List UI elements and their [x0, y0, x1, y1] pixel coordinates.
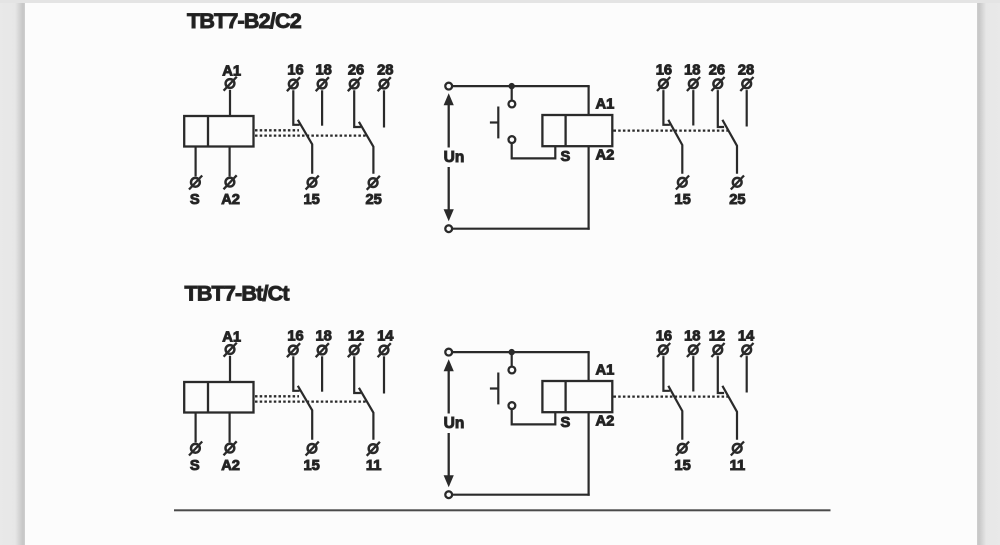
wire right contact 12 with hook — [718, 356, 724, 393]
wire bottom supply rail — [452, 228, 590, 230]
Un arrow down — [444, 167, 454, 221]
wire A2 from coil — [229, 147, 231, 177]
supply terminal bottom (open circle) — [445, 491, 452, 498]
svg-text:15: 15 — [674, 458, 690, 474]
wire contact 18 — [321, 356, 323, 391]
terminal 25 (right contacts) — [731, 176, 744, 190]
wire A1 to coil — [229, 356, 231, 382]
svg-text:S: S — [190, 192, 200, 208]
svg-text:A1: A1 — [222, 64, 241, 80]
terminal 14 (left contacts) — [378, 343, 391, 357]
svg-text:14: 14 — [738, 329, 755, 345]
changeover blade contact 15 (left) — [298, 120, 312, 174]
wire contact 16 with hook — [293, 90, 299, 125]
wire right contact 18 — [692, 90, 694, 125]
push button actuator — [490, 107, 498, 139]
dotted linkage upper (coil to contact 1) — [255, 129, 299, 131]
terminal A1 (left diagram) — [224, 77, 237, 91]
wire contact 16 with hook — [293, 356, 299, 391]
dotted linkage (coil to right contacts) — [614, 395, 729, 397]
svg-text:Un: Un — [444, 415, 465, 432]
wire junction to button — [511, 86, 513, 100]
svg-text:18: 18 — [684, 63, 700, 79]
wire button to S terminal — [512, 409, 556, 425]
relay coil box (right diagram) — [542, 115, 612, 146]
svg-text:26: 26 — [348, 63, 364, 79]
wire junction to button — [511, 352, 513, 366]
svg-text:28: 28 — [377, 63, 393, 79]
supply terminal top (open circle) — [445, 349, 452, 356]
Un arrow up — [444, 359, 454, 413]
terminal 12 (left contacts) — [348, 343, 361, 357]
wire coil A2 to bottom rail — [587, 146, 589, 230]
changeover blade contact 15 (left) — [298, 386, 312, 440]
terminal 11 (right contacts) — [731, 442, 744, 456]
svg-text:15: 15 — [304, 192, 320, 208]
wire coil A2 to bottom rail — [587, 412, 589, 496]
svg-text:28: 28 — [738, 63, 754, 79]
wire contact 26 with hook — [354, 90, 361, 127]
wire right contact 26 with hook — [718, 90, 724, 127]
push button top contact (open circle) — [509, 367, 516, 374]
wire contact 14 — [383, 356, 385, 393]
push button actuator — [490, 373, 498, 405]
wire right contact 28 — [746, 90, 748, 126]
terminal 16 (right contacts) — [657, 343, 670, 357]
terminal 16 (right contacts) — [657, 77, 670, 91]
terminal A1 (left diagram) — [224, 343, 237, 357]
wire S from coil — [195, 413, 197, 443]
terminal 18 (right contacts) — [687, 343, 700, 357]
svg-text:S: S — [190, 458, 200, 474]
svg-text:TBT7-Bt/Ct: TBT7-Bt/Ct — [185, 282, 290, 306]
supply terminal top (open circle) — [445, 83, 452, 90]
terminal 16 (left contacts) — [287, 343, 300, 357]
wire bottom supply rail — [452, 494, 590, 496]
svg-text:S: S — [561, 415, 571, 431]
terminal 26 (left contacts) — [348, 77, 361, 91]
svg-text:26: 26 — [709, 63, 725, 79]
wire contact 18 — [321, 90, 323, 125]
junction node — [509, 349, 515, 355]
svg-text:18: 18 — [684, 329, 700, 345]
svg-text:12: 12 — [709, 329, 725, 345]
svg-text:A2: A2 — [221, 458, 240, 474]
wire top rail to coil A1 — [587, 352, 589, 381]
svg-text:16: 16 — [656, 63, 672, 79]
svg-text:TBT7-B2/C2: TBT7-B2/C2 — [187, 9, 302, 33]
svg-text:12: 12 — [348, 329, 364, 345]
svg-text:25: 25 — [366, 192, 382, 208]
wire top supply rail — [452, 351, 590, 353]
terminal 15 (right contacts) — [676, 442, 689, 456]
terminal 14 (right contacts) — [740, 343, 753, 357]
relay coil box (left diagram) — [184, 116, 253, 147]
svg-text:A2: A2 — [596, 414, 615, 430]
changeover blade contact 11 (left) — [359, 388, 374, 440]
svg-text:16: 16 — [656, 329, 672, 345]
svg-text:A1: A1 — [596, 97, 615, 113]
changeover blade contact 15 (right) — [668, 386, 682, 440]
terminal 25 (left contacts) — [367, 176, 380, 190]
svg-text:18: 18 — [316, 63, 332, 79]
svg-text:15: 15 — [674, 192, 690, 208]
svg-text:Un: Un — [444, 149, 465, 166]
wire right contact 14 — [746, 356, 748, 392]
Un arrow down — [444, 433, 454, 487]
svg-text:18: 18 — [316, 329, 332, 345]
dotted linkage (coil to right contacts) — [614, 129, 729, 131]
relay coil box (left diagram) — [184, 382, 253, 413]
dotted linkage lower (coil to contact 2) — [255, 400, 367, 402]
bottom separator rule — [174, 509, 831, 511]
wire top rail to coil A1 — [587, 86, 589, 115]
wire right contact 18 — [692, 356, 694, 391]
supply terminal bottom (open circle) — [445, 225, 452, 232]
wire A2 from coil — [229, 413, 231, 443]
svg-text:A2: A2 — [596, 148, 615, 164]
changeover blade contact 25 (right) — [722, 120, 737, 174]
push button top contact (open circle) — [509, 101, 516, 108]
changeover blade contact 25 (left) — [359, 122, 374, 174]
svg-text:A2: A2 — [221, 192, 240, 208]
svg-text:11: 11 — [730, 458, 746, 474]
terminal A2 (left diagram) — [224, 441, 237, 455]
terminal 16 (left contacts) — [287, 77, 300, 91]
terminal 28 (right contacts) — [740, 77, 753, 91]
terminal 18 (right contacts) — [687, 77, 700, 91]
terminal 18 (left contacts) — [316, 343, 329, 357]
wire right contact 16 with hook — [663, 90, 670, 125]
changeover blade contact 15 (right) — [668, 120, 682, 174]
wire top supply rail — [452, 85, 590, 87]
wire button to S terminal — [512, 143, 556, 159]
terminal A2 (left diagram) — [224, 175, 237, 189]
push button bottom contact (open circle) — [509, 402, 516, 409]
changeover blade contact 11 (right) — [722, 386, 737, 440]
terminal 28 (left contacts) — [378, 77, 391, 91]
terminal S (left diagram) — [189, 176, 202, 190]
svg-text:16: 16 — [287, 63, 303, 79]
svg-text:A1: A1 — [596, 363, 615, 379]
svg-text:A1: A1 — [222, 330, 241, 346]
Un arrow up — [444, 93, 454, 147]
svg-text:16: 16 — [287, 329, 303, 345]
terminal 12 (right contacts) — [711, 343, 724, 357]
wire S from coil — [195, 147, 197, 177]
push button bottom contact (open circle) — [509, 136, 516, 143]
wire contact 28 — [383, 90, 385, 127]
relay coil box (right diagram) — [542, 381, 612, 412]
terminal 26 (right contacts) — [711, 77, 724, 91]
svg-text:15: 15 — [304, 458, 320, 474]
svg-text:14: 14 — [377, 329, 394, 345]
terminal 15 (left contacts) — [306, 442, 319, 456]
svg-text:25: 25 — [729, 192, 745, 208]
terminal 18 (left contacts) — [316, 77, 329, 91]
dotted linkage upper (coil to contact 1) — [255, 395, 299, 397]
svg-text:S: S — [561, 149, 571, 165]
svg-text:11: 11 — [366, 458, 382, 474]
wire right contact 16 with hook — [663, 356, 670, 391]
terminal 11 (left contacts) — [367, 442, 380, 456]
terminal 15 (right contacts) — [676, 176, 689, 190]
wire contact 12 with hook — [354, 356, 361, 393]
terminal S (left diagram) — [189, 442, 202, 456]
dotted linkage lower (coil to contact 2) — [255, 134, 367, 136]
wire A1 to coil — [229, 90, 231, 116]
junction node — [509, 83, 515, 89]
terminal 15 (left contacts) — [306, 176, 319, 190]
